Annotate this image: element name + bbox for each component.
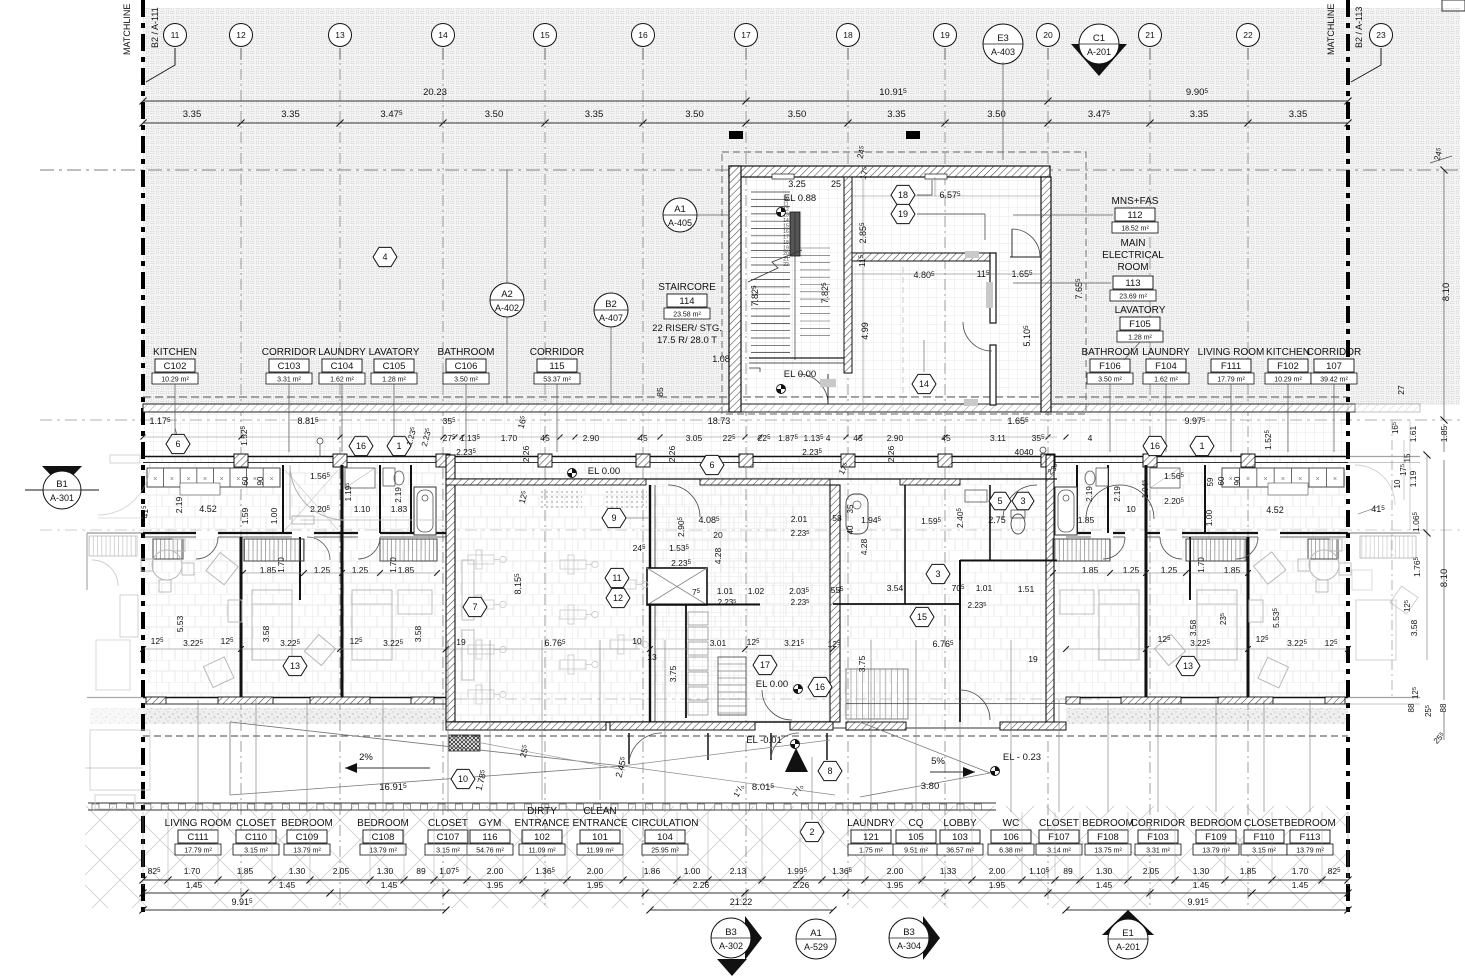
- svg-text:8.10: 8.10: [1439, 569, 1450, 588]
- B3/A-304 marker: [923, 916, 940, 960]
- left wing furniture ghosts: [152, 550, 182, 580]
- svg-text:A-402: A-402: [495, 303, 519, 313]
- svg-text:3.80: 3.80: [921, 781, 940, 792]
- svg-text:EL 0.00: EL 0.00: [784, 369, 816, 380]
- svg-text:22: 22: [783, 262, 789, 268]
- right wing boundary wall: [1046, 455, 1054, 725]
- svg-text:53.37 m²: 53.37 m²: [543, 377, 571, 384]
- room 112 door arc: [1012, 229, 1040, 257]
- walkway edge band: [88, 802, 996, 804]
- stair rail: [790, 212, 800, 256]
- svg-text:2.00: 2.00: [989, 866, 1006, 876]
- svg-text:3.31 m²: 3.31 m²: [277, 377, 301, 384]
- grid bubbles: [164, 24, 187, 47]
- svg-text:13: 13: [335, 30, 345, 40]
- svg-text:1.70: 1.70: [184, 866, 201, 876]
- B1/A-301 marker: [42, 466, 82, 487]
- partition wall vertical 112: [990, 253, 996, 323]
- svg-text:3.35: 3.35: [887, 109, 906, 120]
- svg-text:B2 / A-111: B2 / A-111: [150, 7, 160, 48]
- svg-text:1.30: 1.30: [377, 866, 394, 876]
- svg-text:1.85: 1.85: [237, 866, 254, 876]
- svg-text:60: 60: [1217, 476, 1226, 485]
- svg-text:23.58 m²: 23.58 m²: [673, 312, 701, 319]
- laundry/cq partition: [833, 603, 960, 605]
- svg-text:20: 20: [1043, 30, 1053, 40]
- bottom lattice: [85, 806, 1348, 908]
- bottom dim row 3: [143, 909, 446, 911]
- svg-text:23: 23: [1376, 30, 1386, 40]
- svg-text:×: ×: [203, 476, 207, 483]
- svg-text:10: 10: [458, 774, 468, 784]
- svg-text:1.95: 1.95: [587, 880, 604, 890]
- svg-text:3.35: 3.35: [585, 109, 604, 120]
- bathroom F106 tub: [1055, 487, 1077, 535]
- svg-text:17: 17: [760, 660, 770, 670]
- svg-text:21: 21: [1145, 30, 1155, 40]
- bottom dim row 2: [143, 892, 1348, 894]
- svg-text:1.08: 1.08: [712, 354, 730, 364]
- lavatory F105 fixtures: [1096, 468, 1108, 486]
- staircore dashed outline: [722, 152, 1086, 414]
- svg-text:CLOSET: CLOSET: [1039, 818, 1079, 829]
- svg-text:CORRIDOR: CORRIDOR: [262, 347, 316, 358]
- svg-text:2.05: 2.05: [1143, 866, 1160, 876]
- svg-text:13.79 m²: 13.79 m²: [1202, 848, 1230, 855]
- svg-text:E3: E3: [997, 33, 1009, 44]
- svg-text:6.38 m²: 6.38 m²: [999, 848, 1023, 855]
- svg-text:MATCHLINE: MATCHLINE: [1326, 4, 1336, 55]
- svg-text:16: 16: [638, 30, 648, 40]
- svg-text:18: 18: [898, 190, 908, 200]
- svg-text:2.19: 2.19: [394, 487, 403, 503]
- svg-text:F104: F104: [1155, 361, 1177, 372]
- stair room right wall: [844, 177, 852, 373]
- svg-text:1.62 m²: 1.62 m²: [330, 377, 354, 384]
- svg-text:103: 103: [952, 832, 968, 843]
- svg-text:B3: B3: [725, 927, 737, 938]
- svg-text:19: 19: [940, 30, 950, 40]
- svg-text:16: 16: [815, 682, 825, 692]
- stair landing: [749, 357, 844, 359]
- svg-text:60: 60: [241, 476, 250, 485]
- gym equipment ghosts: [468, 550, 506, 569]
- gym entry door arc: [668, 485, 700, 517]
- svg-text:116: 116: [482, 832, 497, 843]
- svg-text:MAIN: MAIN: [1121, 238, 1146, 249]
- svg-text:C109: C109: [296, 832, 319, 843]
- grid 23 leader: [1351, 48, 1381, 82]
- svg-text:C110: C110: [245, 832, 267, 843]
- svg-text:2.19: 2.19: [1085, 486, 1094, 502]
- svg-text:2.00: 2.00: [587, 866, 604, 876]
- svg-text:1.00: 1.00: [684, 866, 701, 876]
- svg-text:F105: F105: [1129, 319, 1151, 330]
- svg-text:17.79 m²: 17.79 m²: [1217, 377, 1245, 384]
- staircore door arc bottom: [798, 374, 828, 404]
- centerline y699: [430, 698, 1100, 700]
- svg-text:CIRCULATION: CIRCULATION: [631, 818, 698, 829]
- svg-text:F107: F107: [1048, 832, 1070, 843]
- partition 112 divider dim line: [852, 273, 1041, 275]
- svg-text:1.70: 1.70: [501, 433, 518, 443]
- right wing furniture ghosts: [1309, 550, 1339, 580]
- lockers: [688, 612, 708, 625]
- right wing closets: [1186, 539, 1246, 561]
- svg-text:1.25: 1.25: [1123, 565, 1140, 575]
- svg-text:1.59: 1.59: [240, 507, 250, 524]
- svg-text:3.58: 3.58: [261, 625, 271, 642]
- svg-text:2.26: 2.26: [693, 880, 710, 890]
- svg-text:14: 14: [438, 30, 448, 40]
- entrance door arcs bottom: [762, 690, 792, 720]
- svg-text:1.85: 1.85: [1078, 515, 1095, 525]
- svg-text:A-407: A-407: [599, 313, 623, 323]
- svg-text:EL 0.00: EL 0.00: [588, 466, 620, 477]
- svg-text:2.05: 2.05: [333, 866, 350, 876]
- right corridor door arcs: [1003, 485, 1037, 519]
- svg-text:A-529: A-529: [804, 942, 828, 952]
- svg-text:25.95 m²: 25.95 m²: [651, 848, 679, 855]
- svg-text:1.45: 1.45: [186, 880, 203, 890]
- centerline y420: [40, 419, 1460, 421]
- svg-text:CLEAN: CLEAN: [583, 806, 616, 817]
- svg-text:EL -0.01: EL -0.01: [746, 735, 782, 746]
- cq stair grate: [846, 669, 908, 719]
- laundry F104 machine: [1150, 468, 1180, 488]
- svg-text:×: ×: [186, 476, 190, 483]
- corridor stairs: [718, 657, 746, 715]
- svg-text:1: 1: [1199, 441, 1204, 451]
- svg-text:C111: C111: [187, 832, 208, 843]
- svg-text:4040: 4040: [1015, 447, 1034, 457]
- svg-text:11.99 m²: 11.99 m²: [586, 848, 614, 855]
- left wing closets: [244, 539, 304, 561]
- svg-text:3.50 m²: 3.50 m²: [454, 377, 478, 384]
- svg-text:18: 18: [843, 30, 853, 40]
- right ghost continuation: [1348, 404, 1420, 704]
- svg-text:3.54: 3.54: [887, 583, 904, 593]
- svg-text:×: ×: [220, 476, 224, 483]
- svg-text:8.10: 8.10: [1441, 283, 1452, 302]
- svg-text:F103: F103: [1147, 832, 1169, 843]
- svg-text:59: 59: [1206, 477, 1215, 486]
- svg-text:2.19: 2.19: [1113, 486, 1122, 502]
- svg-text:×: ×: [269, 476, 273, 483]
- svg-text:1.95: 1.95: [989, 880, 1006, 890]
- svg-text:C1: C1: [1093, 33, 1105, 44]
- svg-text:10.29 m²: 10.29 m²: [161, 377, 189, 384]
- svg-text:KITCHEN: KITCHEN: [1266, 347, 1310, 358]
- svg-text:10.915: 10.915: [879, 87, 907, 98]
- svg-text:A-302: A-302: [719, 941, 743, 951]
- centerline y530: [40, 529, 1460, 531]
- svg-text:3: 3: [1020, 496, 1025, 506]
- svg-text:3.58: 3.58: [1409, 619, 1419, 636]
- svg-text:40: 40: [846, 525, 855, 534]
- corridor right wall: [830, 485, 840, 722]
- svg-text:LAUNDRY: LAUNDRY: [318, 347, 366, 358]
- svg-text:LAUNDRY: LAUNDRY: [847, 818, 895, 829]
- svg-text:×: ×: [1246, 476, 1250, 483]
- svg-text:4: 4: [1088, 433, 1093, 443]
- svg-text:1.85: 1.85: [1224, 565, 1241, 575]
- slope arrow left: [345, 767, 430, 769]
- staircore interior: [729, 166, 1050, 412]
- svg-text:A-301: A-301: [50, 493, 74, 503]
- svg-text:ENTRANCE: ENTRANCE: [572, 818, 627, 829]
- svg-text:F110: F110: [1254, 832, 1275, 843]
- svg-text:2.13: 2.13: [730, 866, 747, 876]
- centerline y170: [40, 169, 1460, 171]
- svg-text:4.28: 4.28: [859, 538, 869, 555]
- entrance porch walls: [628, 733, 630, 764]
- svg-text:4.28: 4.28: [713, 547, 723, 564]
- svg-text:88: 88: [1439, 703, 1448, 712]
- svg-text:1.70: 1.70: [1292, 866, 1309, 876]
- svg-text:GYM: GYM: [479, 818, 502, 829]
- svg-text:2.01: 2.01: [791, 514, 808, 524]
- left wing bottom wall: [143, 697, 446, 699]
- svg-text:1.70: 1.70: [389, 557, 398, 573]
- svg-text:12: 12: [236, 30, 246, 40]
- svg-text:3.50 m²: 3.50 m²: [1098, 377, 1122, 384]
- svg-text:85: 85: [655, 387, 665, 397]
- svg-text:WC: WC: [1003, 818, 1020, 829]
- svg-text:B2 / A-113: B2 / A-113: [1354, 7, 1364, 48]
- svg-text:54.76 m²: 54.76 m²: [476, 848, 504, 855]
- bottom dim row 1: [143, 879, 1348, 881]
- svg-text:1.62 m²: 1.62 m²: [1154, 377, 1178, 384]
- svg-text:18.73: 18.73: [708, 416, 731, 426]
- svg-text:1.85: 1.85: [260, 565, 277, 575]
- B3/A-302 marker: [745, 916, 762, 960]
- svg-text:CORRIDOR: CORRIDOR: [1307, 347, 1361, 358]
- svg-text:3.75: 3.75: [857, 655, 867, 672]
- svg-text:MNS+FAS: MNS+FAS: [1112, 196, 1159, 207]
- svg-text:1.83: 1.83: [391, 504, 408, 514]
- svg-text:1.00: 1.00: [269, 507, 279, 524]
- black triangle marker: [785, 748, 808, 772]
- svg-text:3.11: 3.11: [990, 433, 1006, 443]
- svg-text:2.00: 2.00: [887, 866, 904, 876]
- left edge door ghosts: [290, 465, 345, 520]
- svg-text:7: 7: [472, 602, 477, 612]
- svg-text:EL - 0.23: EL - 0.23: [1003, 752, 1041, 763]
- svg-text:4: 4: [382, 252, 387, 262]
- svg-text:LAUNDRY: LAUNDRY: [1142, 347, 1190, 358]
- svg-text:3.35: 3.35: [1190, 109, 1209, 120]
- svg-text:1: 1: [396, 441, 401, 451]
- slope arrow right: [930, 771, 975, 773]
- svg-text:36.57 m²: 36.57 m²: [946, 848, 974, 855]
- roof overhang dashed: [143, 396, 1348, 398]
- svg-text:C104: C104: [331, 361, 354, 372]
- staircore inner annotation lines: [862, 177, 864, 412]
- svg-text:ELECTRICAL: ELECTRICAL: [1102, 250, 1164, 261]
- svg-text:45: 45: [853, 433, 863, 443]
- svg-text:2%: 2%: [359, 752, 373, 763]
- svg-text:1.75 m²: 1.75 m²: [859, 848, 883, 855]
- svg-text:CORRIDOR: CORRIDOR: [530, 347, 584, 358]
- svg-text:3.31 m²: 3.31 m²: [1146, 848, 1170, 855]
- svg-text:1.01: 1.01: [717, 586, 734, 596]
- svg-text:19: 19: [898, 209, 908, 219]
- room 113 door arc: [963, 322, 992, 351]
- svg-text:115: 115: [549, 361, 564, 372]
- left ghost continuation rooms: [87, 455, 150, 698]
- svg-text:4.99: 4.99: [860, 322, 870, 340]
- svg-text:45: 45: [941, 433, 951, 443]
- svg-text:3.14 m²: 3.14 m²: [1047, 848, 1071, 855]
- svg-text:×: ×: [1298, 476, 1302, 483]
- left matchline: [141, 0, 145, 915]
- svg-text:CLOSET: CLOSET: [236, 818, 276, 829]
- svg-text:ROOM: ROOM: [1117, 262, 1148, 273]
- svg-text:6: 6: [709, 460, 714, 470]
- svg-text:2.90: 2.90: [887, 433, 904, 443]
- gym top wall: [446, 478, 1057, 480]
- svg-text:1.30: 1.30: [289, 866, 306, 876]
- svg-text:1.01: 1.01: [976, 583, 993, 593]
- B2 view circle: [594, 293, 628, 327]
- svg-text:9: 9: [611, 513, 616, 523]
- right matchline: [1346, 0, 1350, 915]
- right wing partitions: [1247, 537, 1250, 697]
- svg-text:105: 105: [908, 832, 924, 843]
- svg-text:EL 0.88: EL 0.88: [784, 193, 816, 204]
- svg-text:BEDROOM: BEDROOM: [281, 818, 333, 829]
- svg-text:112: 112: [1127, 210, 1142, 221]
- svg-text:15: 15: [917, 612, 927, 622]
- svg-text:B1: B1: [56, 479, 68, 490]
- svg-text:101: 101: [592, 832, 608, 843]
- stipple bands: [143, 708, 446, 724]
- svg-text:A1: A1: [810, 928, 822, 939]
- svg-text:LAVATORY: LAVATORY: [1115, 305, 1166, 316]
- svg-text:F109: F109: [1205, 832, 1227, 843]
- svg-text:STAIRCORE: STAIRCORE: [658, 282, 716, 293]
- svg-text:3.15 m²: 3.15 m²: [244, 848, 268, 855]
- svg-text:1.70: 1.70: [1197, 557, 1206, 573]
- svg-text:1.95: 1.95: [487, 880, 504, 890]
- svg-text:LIVING ROOM: LIVING ROOM: [165, 818, 232, 829]
- svg-text:13.79 m²: 13.79 m²: [293, 848, 321, 855]
- svg-text:89: 89: [1063, 866, 1073, 876]
- svg-text:LIVING ROOM: LIVING ROOM: [1198, 347, 1265, 358]
- gray vent rects: [965, 251, 979, 258]
- svg-text:×: ×: [153, 476, 157, 483]
- svg-text:KITCHEN: KITCHEN: [153, 347, 197, 358]
- right wing mid partition: [1066, 532, 1348, 534]
- right edge dim verticals: [1443, 712, 1445, 740]
- svg-text:13: 13: [647, 652, 657, 662]
- svg-text:1.95: 1.95: [887, 880, 904, 890]
- svg-text:114: 114: [679, 296, 694, 307]
- svg-text:3: 3: [935, 569, 940, 579]
- svg-text:3.35: 3.35: [183, 109, 202, 120]
- svg-text:3.50: 3.50: [485, 109, 504, 120]
- walkway strip tiles: [143, 412, 1348, 457]
- svg-text:1.28 m²: 1.28 m²: [382, 377, 406, 384]
- svg-text:CQ: CQ: [909, 818, 924, 829]
- svg-text:102: 102: [534, 832, 550, 843]
- svg-text:1.33: 1.33: [940, 866, 957, 876]
- svg-text:11.09 m²: 11.09 m²: [528, 848, 556, 855]
- svg-text:10: 10: [632, 636, 642, 646]
- svg-text:13.79 m²: 13.79 m²: [369, 848, 397, 855]
- left wing gym boundary wall: [446, 455, 455, 725]
- svg-text:22 RISER/ STG.: 22 RISER/ STG.: [652, 323, 722, 334]
- svg-text:BEDROOM: BEDROOM: [357, 818, 409, 829]
- svg-text:1.25: 1.25: [314, 565, 331, 575]
- svg-text:15: 15: [1403, 453, 1412, 462]
- svg-text:1.45: 1.45: [1193, 880, 1210, 890]
- svg-text:A-201: A-201: [1116, 942, 1140, 952]
- svg-text:1.70: 1.70: [277, 557, 286, 573]
- svg-text:12: 12: [613, 593, 623, 603]
- svg-text:3.01: 3.01: [710, 638, 727, 648]
- svg-text:2.26: 2.26: [886, 445, 896, 462]
- central bottom wall: [446, 721, 833, 723]
- svg-text:1.45: 1.45: [381, 880, 398, 890]
- svg-text:F111: F111: [1221, 361, 1241, 372]
- svg-text:17: 17: [741, 30, 751, 40]
- svg-text:1.85: 1.85: [1082, 565, 1099, 575]
- room 112/113 partition: [852, 253, 992, 261]
- svg-text:B2: B2: [605, 299, 617, 310]
- stair treads: [751, 191, 790, 193]
- svg-text:19: 19: [456, 637, 466, 647]
- elevator lobby walls: [647, 604, 760, 606]
- bath laundry 121 fixtures: [846, 494, 868, 534]
- svg-text:C102: C102: [164, 361, 187, 372]
- svg-text:1.25: 1.25: [1161, 565, 1178, 575]
- svg-text:A-201: A-201: [1087, 47, 1111, 57]
- kitchen counter C102: [147, 468, 280, 487]
- svg-text:16: 16: [1150, 441, 1160, 451]
- svg-text:3.50: 3.50: [788, 109, 807, 120]
- elevator shaft: [647, 568, 707, 605]
- staircore outer walls: [729, 166, 1050, 177]
- svg-text:90: 90: [1233, 476, 1242, 485]
- svg-text:15: 15: [540, 30, 550, 40]
- lobby walls: [959, 560, 961, 722]
- exterior basketweave ground: [143, 8, 1460, 405]
- svg-text:18.52 m²: 18.52 m²: [1121, 226, 1149, 233]
- svg-text:EL 0.00: EL 0.00: [756, 679, 788, 690]
- svg-text:1.45: 1.45: [279, 880, 296, 890]
- C1 section marker: [1071, 44, 1127, 76]
- svg-text:35: 35: [846, 504, 855, 513]
- svg-text:13.75 m²: 13.75 m²: [1094, 848, 1122, 855]
- svg-text:16: 16: [356, 441, 366, 451]
- svg-text:A-304: A-304: [897, 941, 921, 951]
- svg-text:13.79 m²: 13.79 m²: [1296, 848, 1324, 855]
- bathroom C106 tub: [414, 487, 436, 535]
- svg-text:8: 8: [827, 766, 832, 776]
- svg-text:1.135 4: 1.135 4: [804, 433, 831, 443]
- svg-text:BEDROOM: BEDROOM: [1082, 818, 1134, 829]
- svg-text:11: 11: [612, 573, 621, 583]
- svg-text:89: 89: [416, 866, 426, 876]
- svg-text:×: ×: [1316, 476, 1320, 483]
- svg-text:1.02: 1.02: [748, 586, 765, 596]
- svg-text:A1: A1: [674, 204, 686, 215]
- svg-text:1.30: 1.30: [1193, 866, 1210, 876]
- left wing partition walls vertical: [240, 537, 243, 697]
- svg-text:2.00: 2.00: [487, 866, 504, 876]
